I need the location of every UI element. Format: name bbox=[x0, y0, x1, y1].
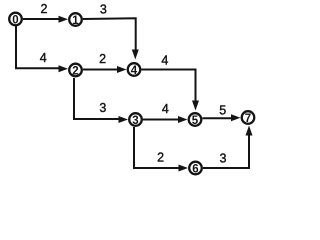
svg-text:7: 7 bbox=[245, 113, 251, 125]
svg-text:2: 2 bbox=[72, 65, 78, 77]
wire 0-2 bbox=[16, 26, 68, 72]
wire 0-1 bbox=[23, 16, 68, 23]
svg-text:4: 4 bbox=[162, 102, 169, 116]
node 5 bbox=[189, 113, 202, 127]
svg-text:4: 4 bbox=[40, 51, 47, 65]
svg-text:2: 2 bbox=[157, 151, 164, 165]
svg-text:1: 1 bbox=[72, 15, 79, 27]
svg-text:4: 4 bbox=[161, 53, 168, 67]
node 1 bbox=[69, 13, 82, 27]
svg-text:3: 3 bbox=[220, 152, 227, 166]
node 6 bbox=[189, 162, 202, 176]
svg-text:6: 6 bbox=[192, 163, 198, 175]
wire 2-4 bbox=[83, 66, 127, 73]
svg-text:2: 2 bbox=[99, 52, 106, 66]
wire 3-5 bbox=[143, 116, 188, 123]
svg-text:3: 3 bbox=[99, 101, 106, 115]
node 2 bbox=[69, 64, 82, 78]
wire 4-5 bbox=[142, 70, 200, 111]
svg-text:5: 5 bbox=[192, 115, 199, 127]
wire 2-3 bbox=[74, 78, 128, 123]
wire 3-6 bbox=[134, 127, 188, 172]
svg-text:3: 3 bbox=[132, 115, 138, 127]
svg-text:2: 2 bbox=[41, 2, 48, 16]
wire 5-7 bbox=[203, 114, 241, 121]
node 7 bbox=[242, 111, 255, 125]
svg-text:0: 0 bbox=[12, 14, 18, 26]
node 3 bbox=[129, 113, 142, 127]
wire 6-7 bbox=[203, 126, 253, 169]
wire 1-4 bbox=[83, 18, 139, 59]
node 4 bbox=[128, 63, 141, 77]
svg-text:4: 4 bbox=[131, 65, 138, 77]
node 0 bbox=[9, 13, 22, 27]
svg-text:3: 3 bbox=[100, 2, 107, 16]
svg-text:5: 5 bbox=[219, 103, 226, 117]
